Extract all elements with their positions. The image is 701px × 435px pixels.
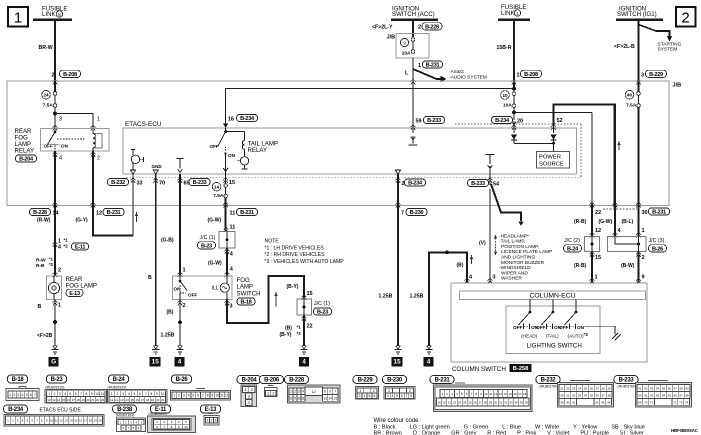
rear fog lamp relay text <box>15 128 35 155</box>
supply rail wire <box>226 87 516 128</box>
pin 2 label <box>97 156 100 162</box>
wire GY relay pin2 path <box>93 206 133 236</box>
svg-text:13: 13 <box>120 398 124 402</box>
connector B-238 label <box>113 405 137 418</box>
tail relay driver circle <box>237 149 249 169</box>
svg-text:7: 7 <box>335 390 337 394</box>
chevron column pin 1 <box>590 278 595 283</box>
svg-text:17: 17 <box>72 398 76 402</box>
svg-text:31: 31 <box>499 400 503 404</box>
label 1 B-231 <box>418 61 443 69</box>
connector B-23 <box>45 385 107 403</box>
svg-text:5: 5 <box>70 392 72 396</box>
svg-text:15: 15 <box>152 359 160 366</box>
svg-text:(R-B): (R-B) <box>574 263 587 269</box>
svg-text:B-228: B-228 <box>33 210 47 216</box>
label 22 <box>595 209 637 216</box>
svg-text:30: 30 <box>642 210 648 216</box>
switch AUTO contacts <box>559 324 588 339</box>
chevron JC1b bottom <box>302 316 307 321</box>
label G-W mid <box>208 261 222 267</box>
ground 15 B230 <box>392 346 403 367</box>
svg-text:G: G <box>51 359 56 366</box>
svg-text:(B-W): (B-W) <box>621 263 635 269</box>
svg-text:Wire colour code: Wire colour code <box>374 418 420 424</box>
svg-text:2: 2 <box>97 156 100 162</box>
connector B-233b label <box>614 376 638 389</box>
svg-text:*2: *2 <box>64 244 69 249</box>
label 1.25B right <box>410 294 424 300</box>
svg-text:5: 5 <box>324 390 326 394</box>
svg-text:17: 17 <box>141 398 145 402</box>
label 52 <box>557 118 563 124</box>
svg-text:16: 16 <box>513 392 517 396</box>
svg-text:OFF: OFF <box>513 325 523 330</box>
svg-text:J/C (2): J/C (2) <box>564 238 580 244</box>
svg-text:65: 65 <box>668 393 672 397</box>
chevron JC1 bottom <box>225 249 230 254</box>
svg-text:(MU801814): (MU801814) <box>116 414 134 418</box>
pin 2 label below switch <box>183 303 186 309</box>
pin 3 label column <box>493 275 496 281</box>
svg-text:GND: GND <box>152 164 163 169</box>
junction connector J/C(3) box <box>608 237 647 252</box>
svg-text:4: 4 <box>364 394 366 398</box>
ground G <box>49 346 59 367</box>
svg-text:73: 73 <box>679 400 683 404</box>
chevron JC1 top <box>224 227 229 232</box>
svg-text:B-234: B-234 <box>240 116 255 122</box>
svg-text:8: 8 <box>150 392 152 396</box>
connector B-228 <box>288 385 341 403</box>
svg-text:1: 1 <box>388 389 390 393</box>
svg-text:B-26: B-26 <box>176 377 189 383</box>
svg-text:B-208: B-208 <box>63 72 77 78</box>
svg-text:54: 54 <box>493 182 500 188</box>
svg-text:7.5A: 7.5A <box>626 102 637 108</box>
svg-text:J/B: J/B <box>673 83 682 89</box>
chevron pin 2 B-234 <box>396 178 401 183</box>
wire RB below JB <box>591 204 593 237</box>
chevron column pin 3 <box>488 278 493 283</box>
svg-text:19: 19 <box>437 400 441 404</box>
svg-text:3: 3 <box>17 393 19 397</box>
junction connector J/C(2) box <box>585 237 600 252</box>
svg-text:<F>2L-Y: <F>2L-Y <box>372 25 393 31</box>
ETACS pin 20 diode <box>511 128 517 143</box>
svg-text:18: 18 <box>523 392 527 396</box>
svg-text:9: 9 <box>156 392 158 396</box>
label B-233 54 <box>468 179 501 187</box>
svg-text:12: 12 <box>115 398 119 402</box>
label J/C(1) lower <box>314 301 332 316</box>
svg-text:2: 2 <box>58 268 61 274</box>
svg-text:59: 59 <box>685 386 689 390</box>
svg-text:71: 71 <box>650 400 654 404</box>
svg-text:LIGHTING SWITCH: LIGHTING SWITCH <box>527 343 582 350</box>
svg-text:15B-R: 15B-R <box>497 45 512 51</box>
thick feed bracket <box>554 105 615 207</box>
chevron pin 70 <box>153 178 158 183</box>
chevron B-228 14 <box>53 202 58 207</box>
svg-text:24: 24 <box>463 400 467 404</box>
svg-text:(MU801815): (MU801815) <box>46 385 65 389</box>
svg-text:2: 2 <box>211 419 213 423</box>
svg-text:(B-Y): (B-Y) <box>280 332 292 338</box>
svg-text:4: 4 <box>128 392 130 396</box>
svg-text:15: 15 <box>130 398 134 402</box>
svg-text:(B-L): (B-L) <box>622 219 634 225</box>
label B-W <box>621 263 635 269</box>
fog switch contact <box>174 276 198 300</box>
ground 4 column <box>424 346 434 367</box>
svg-text:20: 20 <box>443 400 447 404</box>
pin 4 label below JC1 <box>230 252 234 258</box>
svg-text:-AUDIO SYSTEM: -AUDIO SYSTEM <box>449 74 487 80</box>
ground 4 fog switch <box>175 346 185 367</box>
chevron 7 B-230 <box>396 202 401 207</box>
pin 1 label column <box>595 275 598 281</box>
connector E-13 <box>204 414 219 426</box>
svg-text:10: 10 <box>502 93 508 98</box>
wire to relay pins 3 and 1 <box>55 114 93 129</box>
pin 4 label column <box>469 275 473 281</box>
svg-text:1: 1 <box>595 275 598 281</box>
svg-text:53: 53 <box>650 386 654 390</box>
svg-text:(G-W): (G-W) <box>208 261 222 267</box>
svg-text:-AS&G: -AS&G <box>449 69 464 75</box>
svg-text:3: 3 <box>493 275 496 281</box>
svg-text:16: 16 <box>79 419 83 423</box>
svg-text:4: 4 <box>302 359 306 366</box>
svg-text:39: 39 <box>560 400 564 404</box>
svg-text:ON: ON <box>61 143 69 148</box>
svg-text:B-228: B-228 <box>289 378 305 384</box>
svg-text:16: 16 <box>228 117 234 123</box>
wire colour code heading <box>374 418 420 424</box>
svg-text:8: 8 <box>85 392 87 396</box>
svg-text:B-232: B-232 <box>111 180 125 186</box>
label 69 B-233 <box>184 178 211 186</box>
svg-text:B: B <box>148 275 152 281</box>
J/B label <box>673 83 682 89</box>
svg-text:(R-W): (R-W) <box>37 218 51 224</box>
svg-text:9: 9 <box>403 40 406 45</box>
svg-text:14: 14 <box>125 398 129 402</box>
tail relay output exit arrow <box>223 165 228 174</box>
label B*1 BY*2 <box>280 325 302 339</box>
chevron pin 15 fuse <box>223 178 228 183</box>
label 3 B-229 <box>641 70 667 78</box>
svg-text:25: 25 <box>468 400 472 404</box>
svg-text:6: 6 <box>30 393 32 397</box>
svg-text:R-W: R-W <box>36 258 46 264</box>
svg-text:2: 2 <box>117 392 119 396</box>
ETACS dashed enclosure <box>123 124 581 177</box>
connector chevron IG1 at J/B top <box>636 79 641 84</box>
column switch outer box <box>451 283 647 362</box>
svg-text:B: B <box>38 304 42 310</box>
svg-text:62: 62 <box>650 393 654 397</box>
svg-text:32: 32 <box>504 400 508 404</box>
svg-text:POSITION LAMP,: POSITION LAMP, <box>501 244 539 250</box>
svg-text:B-229: B-229 <box>649 72 663 78</box>
lighting switch stubs <box>529 300 578 314</box>
wire colour code line 1 <box>374 425 645 431</box>
svg-text:24: 24 <box>43 93 49 98</box>
svg-text:11: 11 <box>489 392 492 396</box>
svg-text:MONITOR BUZZER: MONITOR BUZZER <box>501 260 545 266</box>
label B below pin2 <box>167 310 174 316</box>
label G-W right <box>599 219 613 225</box>
label B-228 14 <box>30 208 60 216</box>
svg-text:*3: *3 <box>584 332 589 337</box>
svg-text:52: 52 <box>557 118 563 124</box>
svg-text:7: 7 <box>80 392 82 396</box>
svg-text:3: 3 <box>122 392 124 396</box>
pin 11 label <box>230 225 236 231</box>
svg-text:17: 17 <box>84 419 88 423</box>
chevron pin 54 <box>488 178 493 183</box>
svg-text:31: 31 <box>566 393 570 397</box>
svg-text:58: 58 <box>680 386 684 390</box>
svg-text:7: 7 <box>202 394 204 398</box>
svg-text:E-13: E-13 <box>69 291 80 297</box>
svg-text:1: 1 <box>173 394 175 398</box>
svg-text:7: 7 <box>145 392 147 396</box>
wire GW below JB <box>614 204 616 237</box>
dashed double arrow <box>494 235 497 256</box>
svg-text:OFF: OFF <box>559 325 569 330</box>
svg-text:44: 44 <box>607 400 611 404</box>
wire BW to column <box>638 252 640 284</box>
svg-text:41: 41 <box>572 400 576 404</box>
connector B-26 <box>171 389 231 401</box>
svg-text:NOTE: NOTE <box>265 239 280 245</box>
svg-text:OFF: OFF <box>188 293 197 298</box>
svg-text:ETACS ECU SIDE: ETACS ECU SIDE <box>40 408 82 414</box>
svg-text:68: 68 <box>685 393 689 397</box>
svg-text:(G-W): (G-W) <box>599 219 613 225</box>
tail lamp relay coil <box>226 132 245 150</box>
svg-text:ILL: ILL <box>212 286 219 292</box>
svg-text:*2 : RH DRIVE VEHICLES: *2 : RH DRIVE VEHICLES <box>265 252 326 258</box>
svg-text:1: 1 <box>267 392 269 396</box>
svg-text:B-26: B-26 <box>652 246 663 252</box>
svg-text:4: 4 <box>392 394 394 398</box>
branch to starting system <box>639 25 682 53</box>
svg-text:1: 1 <box>418 63 421 69</box>
svg-text:18: 18 <box>77 398 81 402</box>
svg-text:74: 74 <box>685 400 689 404</box>
label B-232 33 <box>108 178 143 186</box>
svg-text:B-18: B-18 <box>241 300 252 306</box>
svg-text:*1: *1 <box>297 325 302 330</box>
svg-text:-HEADLAMP*: -HEADLAMP* <box>499 233 529 239</box>
svg-text:-WINDSHIELD: -WINDSHIELD <box>499 265 531 271</box>
junction block mini box at fuse 9 <box>387 34 429 59</box>
svg-text:34: 34 <box>584 393 588 397</box>
label 70 <box>159 181 165 187</box>
ETACS pin 59 stub <box>409 81 418 145</box>
svg-text:B-258: B-258 <box>513 366 530 372</box>
svg-text:29: 29 <box>607 386 611 390</box>
svg-text:B-231: B-231 <box>435 378 451 384</box>
label 1 B-208 <box>517 70 542 78</box>
svg-text:2: 2 <box>13 393 15 397</box>
svg-text:J/C (1): J/C (1) <box>200 235 216 241</box>
svg-text:23: 23 <box>101 398 105 402</box>
ground 4 JC1b <box>299 346 309 367</box>
connector B-204 <box>241 385 257 407</box>
connector B-232 label <box>536 376 560 389</box>
label F 2L-Y <box>372 25 393 31</box>
svg-text:51: 51 <box>638 386 642 390</box>
svg-text:B-231: B-231 <box>426 63 440 69</box>
svg-text:B-233: B-233 <box>471 181 485 187</box>
svg-text:COLUMN SWITCH: COLUMN SWITCH <box>452 366 506 373</box>
connector B-206 label <box>260 376 284 384</box>
svg-text:J/C (1): J/C (1) <box>314 301 330 307</box>
chevron rear fog lamp pin 2 <box>53 272 58 277</box>
svg-text:2: 2 <box>681 10 689 27</box>
ETACS-ECU box <box>123 128 577 174</box>
svg-text:B-233: B-233 <box>619 378 635 384</box>
zone box 2 <box>676 7 696 27</box>
svg-text:2: 2 <box>642 255 645 261</box>
svg-text:22: 22 <box>453 400 457 404</box>
svg-text:2: 2 <box>183 303 186 309</box>
svg-text:B-231: B-231 <box>107 210 121 216</box>
label 2 B-208 <box>51 70 80 78</box>
svg-text:B-24: B-24 <box>113 377 126 383</box>
pin 4 label at switch <box>230 267 234 273</box>
svg-text:1: 1 <box>9 393 11 397</box>
label R-W*1 R-B*2 <box>36 257 54 270</box>
wire rear fog lamp to ground <box>53 300 57 346</box>
tail lamp relay switch <box>210 132 236 166</box>
svg-text:2: 2 <box>54 392 56 396</box>
pin 1 label at switch <box>183 268 186 274</box>
wire to rear fog lamp <box>54 247 56 277</box>
svg-text:21: 21 <box>560 386 564 390</box>
svg-text:B-204: B-204 <box>19 157 34 163</box>
svg-text:11: 11 <box>301 396 305 400</box>
svg-text:34: 34 <box>515 400 519 404</box>
connector B-204 label <box>237 376 261 384</box>
svg-text:35: 35 <box>590 393 594 397</box>
label V <box>479 241 486 247</box>
svg-text:SWITCH: SWITCH <box>237 290 261 297</box>
direction arrow pin 33 <box>135 212 138 222</box>
svg-text:56: 56 <box>668 386 672 390</box>
svg-text:(V): (V) <box>479 241 486 247</box>
chevron GW <box>613 202 618 207</box>
label 1.25B left <box>161 333 175 339</box>
svg-text:20: 20 <box>156 398 160 402</box>
chevron pin 20 <box>512 125 517 130</box>
svg-text:11: 11 <box>230 225 236 231</box>
svg-text:(G-B): (G-B) <box>161 238 174 244</box>
svg-text:6: 6 <box>401 394 403 398</box>
wire pin 54 thick slant <box>490 174 524 226</box>
wire fuse10 to pin 20 <box>512 112 517 128</box>
svg-text:22: 22 <box>595 210 601 216</box>
svg-text:15: 15 <box>307 291 313 297</box>
svg-text:6: 6 <box>197 394 199 398</box>
svg-text:B-238: B-238 <box>117 407 133 413</box>
svg-text:11: 11 <box>101 392 105 396</box>
wire 2 B-234 7 B-230 down <box>397 204 399 346</box>
svg-text:(MU803780): (MU803780) <box>540 384 558 388</box>
svg-text:4: 4 <box>22 393 24 397</box>
svg-text:13: 13 <box>64 419 68 423</box>
wire pin 69 down <box>179 174 181 276</box>
pin 2 label rear fog lamp <box>58 268 61 274</box>
svg-text:1: 1 <box>97 117 100 123</box>
label J/C(1) upper <box>198 235 216 249</box>
svg-text:12: 12 <box>47 398 51 402</box>
pin 1 label JC3 <box>642 228 645 234</box>
svg-text:B-230: B-230 <box>387 378 403 384</box>
switch HEAD contacts <box>513 324 539 339</box>
svg-text:B-23: B-23 <box>201 243 212 249</box>
svg-text:33: 33 <box>578 393 582 397</box>
svg-text:11: 11 <box>230 211 236 217</box>
svg-text:2: 2 <box>373 389 375 393</box>
lighting switch blades <box>519 312 577 325</box>
label B-234 20 <box>492 116 524 124</box>
svg-text:5: 5 <box>369 394 371 398</box>
svg-text:1: 1 <box>207 419 209 423</box>
ignition switch IG1 bar <box>616 19 663 21</box>
svg-text:B-232: B-232 <box>541 378 557 384</box>
svg-text:17: 17 <box>518 392 522 396</box>
svg-text:23: 23 <box>458 400 462 404</box>
svg-text:16: 16 <box>67 398 71 402</box>
svg-text:1.25B: 1.25B <box>161 333 175 339</box>
label 11 B-231 <box>230 208 258 216</box>
svg-text:1: 1 <box>183 268 186 274</box>
label G-W upper <box>208 218 222 224</box>
chevron E-11 <box>53 242 58 247</box>
chevron relay pin 2 <box>91 152 96 157</box>
svg-text:3: 3 <box>359 394 361 398</box>
connector B-231 label <box>430 376 454 384</box>
chevron relay pin 1 <box>91 125 96 130</box>
svg-text:40: 40 <box>566 400 570 404</box>
relay B-204 label <box>16 155 37 163</box>
connector B-228 label <box>285 376 309 384</box>
svg-text:15: 15 <box>393 359 401 366</box>
label B-L <box>622 219 634 225</box>
svg-text:10: 10 <box>50 419 54 423</box>
svg-text:ETACS-ECU: ETACS-ECU <box>125 121 162 128</box>
svg-text:2: 2 <box>178 394 180 398</box>
svg-text:COLUMN-ECU: COLUMN-ECU <box>529 293 575 300</box>
fuse 10 wire <box>501 89 516 115</box>
svg-text:*3 : VEHICLES WITH AUTO LAMP: *3 : VEHICLES WITH AUTO LAMP <box>265 259 345 265</box>
wire pin 54 vertical to column ecu <box>489 189 491 283</box>
svg-text:14: 14 <box>328 396 332 400</box>
svg-text:22: 22 <box>307 324 313 330</box>
switch TAIL contacts <box>536 324 562 339</box>
ETACS-ECU label <box>125 121 162 128</box>
ground 15 etacs gnd <box>150 346 161 367</box>
junction connector J/C(1) upper box <box>219 232 235 249</box>
svg-text:14: 14 <box>53 211 60 217</box>
fusible link 8 bar <box>33 19 72 21</box>
